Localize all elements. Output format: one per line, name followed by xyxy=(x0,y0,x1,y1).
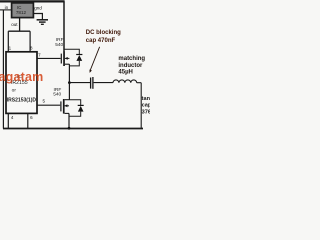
wire to pin 1 xyxy=(7,31,9,52)
svg-text:540: 540 xyxy=(55,42,63,48)
wire 7812 input xyxy=(0,9,12,11)
svg-text:45µH: 45µH xyxy=(118,70,132,76)
node source to rail junction xyxy=(68,127,71,130)
svg-text:agatam: agatam xyxy=(0,70,43,84)
wire top positive rail xyxy=(0,0,65,2)
op-amp U1 oscillator IC IR2155 xyxy=(6,52,37,114)
transistor Q1 upper mosfet xyxy=(61,51,70,66)
svg-text:DC blocking: DC blocking xyxy=(86,30,121,36)
wire 7812 gnd xyxy=(33,14,42,20)
svg-text:tank: tank xyxy=(142,96,150,102)
wire left border xyxy=(2,10,4,129)
wire coil to right edge xyxy=(137,82,142,84)
capacitor C1 dc blocking xyxy=(91,77,93,89)
wire lower source down xyxy=(68,113,70,128)
wire upper drain from rail xyxy=(63,1,65,51)
svg-text:540: 540 xyxy=(53,92,61,98)
wire 7812 out xyxy=(19,18,21,32)
annotation arrow to cap xyxy=(90,47,100,73)
label tank cap xyxy=(142,96,156,116)
svg-text:out: out xyxy=(11,22,18,27)
svg-text:gnd: gnd xyxy=(34,5,42,10)
wire pin 6 xyxy=(27,113,29,128)
wire cap to coil xyxy=(94,82,113,84)
svg-text:matching: matching xyxy=(118,56,145,62)
wire supply split bar xyxy=(8,30,30,32)
label DC blocking cap 470nF xyxy=(86,30,121,44)
svg-text:IRS2153(1)D: IRS2153(1)D xyxy=(7,98,37,104)
diode D2 body diode lower xyxy=(69,100,84,117)
node half bridge junction xyxy=(68,81,71,84)
wire node to lower drain xyxy=(68,83,70,100)
svg-text:in: in xyxy=(5,5,9,10)
wire upper source down xyxy=(68,64,70,82)
inductor L1 matching xyxy=(113,80,137,83)
svg-text:capa: capa xyxy=(142,103,150,109)
wire to pin 8 xyxy=(29,31,31,52)
svg-text:IRF: IRF xyxy=(56,37,64,43)
svg-text:inductor: inductor xyxy=(118,63,143,69)
svg-text:cap 470nF: cap 470nF xyxy=(86,38,116,44)
wire pin 7 to upper gate xyxy=(37,57,61,59)
ground xyxy=(37,20,48,25)
svg-text:7812: 7812 xyxy=(16,10,27,15)
wire right vertical xyxy=(140,83,142,129)
regulator IC 7812 xyxy=(12,3,34,18)
transistor Q2 lower mosfet xyxy=(60,99,69,114)
svg-text:or: or xyxy=(12,87,17,93)
wire pin 4 xyxy=(7,113,9,128)
wire node to cap xyxy=(69,82,90,84)
label matching inductor 45uH xyxy=(118,56,145,76)
svg-text:3760: 3760 xyxy=(142,109,150,115)
diode D1 body diode upper xyxy=(64,49,82,66)
wire pin 5 to lower gate xyxy=(37,104,60,106)
wire bottom rail xyxy=(3,128,143,130)
